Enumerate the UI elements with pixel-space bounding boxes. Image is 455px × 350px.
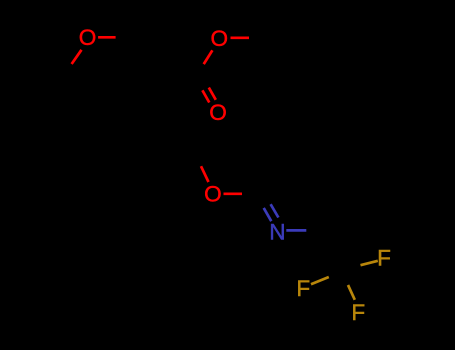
wire C-F1 half-bond (gold) (311, 277, 329, 284)
svg-text:F: F (351, 300, 365, 325)
svg-text:O: O (79, 25, 97, 50)
wire O4-C2(pyridine) half-bond (red, right) (224, 192, 243, 195)
wire O2-CH3 half-bond (red, right) (231, 36, 250, 39)
svg-text:N: N (269, 220, 285, 245)
wire C2=N double bond line 2 (blue) (271, 204, 279, 217)
svg-text:F: F (377, 246, 391, 271)
svg-text:O: O (209, 100, 227, 125)
wire O1-CH3 half-bond (red, right) (98, 36, 116, 39)
wire C=O3 double bond line 2 (red) (209, 88, 216, 100)
wire C-F3 half-bond (gold) (361, 261, 378, 265)
svg-text:F: F (296, 276, 310, 301)
svg-text:O: O (211, 26, 229, 51)
wire CH2-O4 half-bond (red, upper-left) (201, 166, 209, 182)
wire C2=N double bond line 1 (blue) (264, 208, 272, 221)
svg-text:O: O (204, 181, 222, 206)
wire C-F2 half-bond (gold) (348, 285, 355, 300)
wire O1-CH= half-bond (red, lower-left) (72, 50, 82, 64)
wire C=O3 double bond line 1 (red) (202, 90, 209, 102)
wire O2-C(ester) half-bond (red, lower-left) (204, 50, 213, 64)
wire N-C6 half-bond (blue, right) (286, 229, 306, 232)
